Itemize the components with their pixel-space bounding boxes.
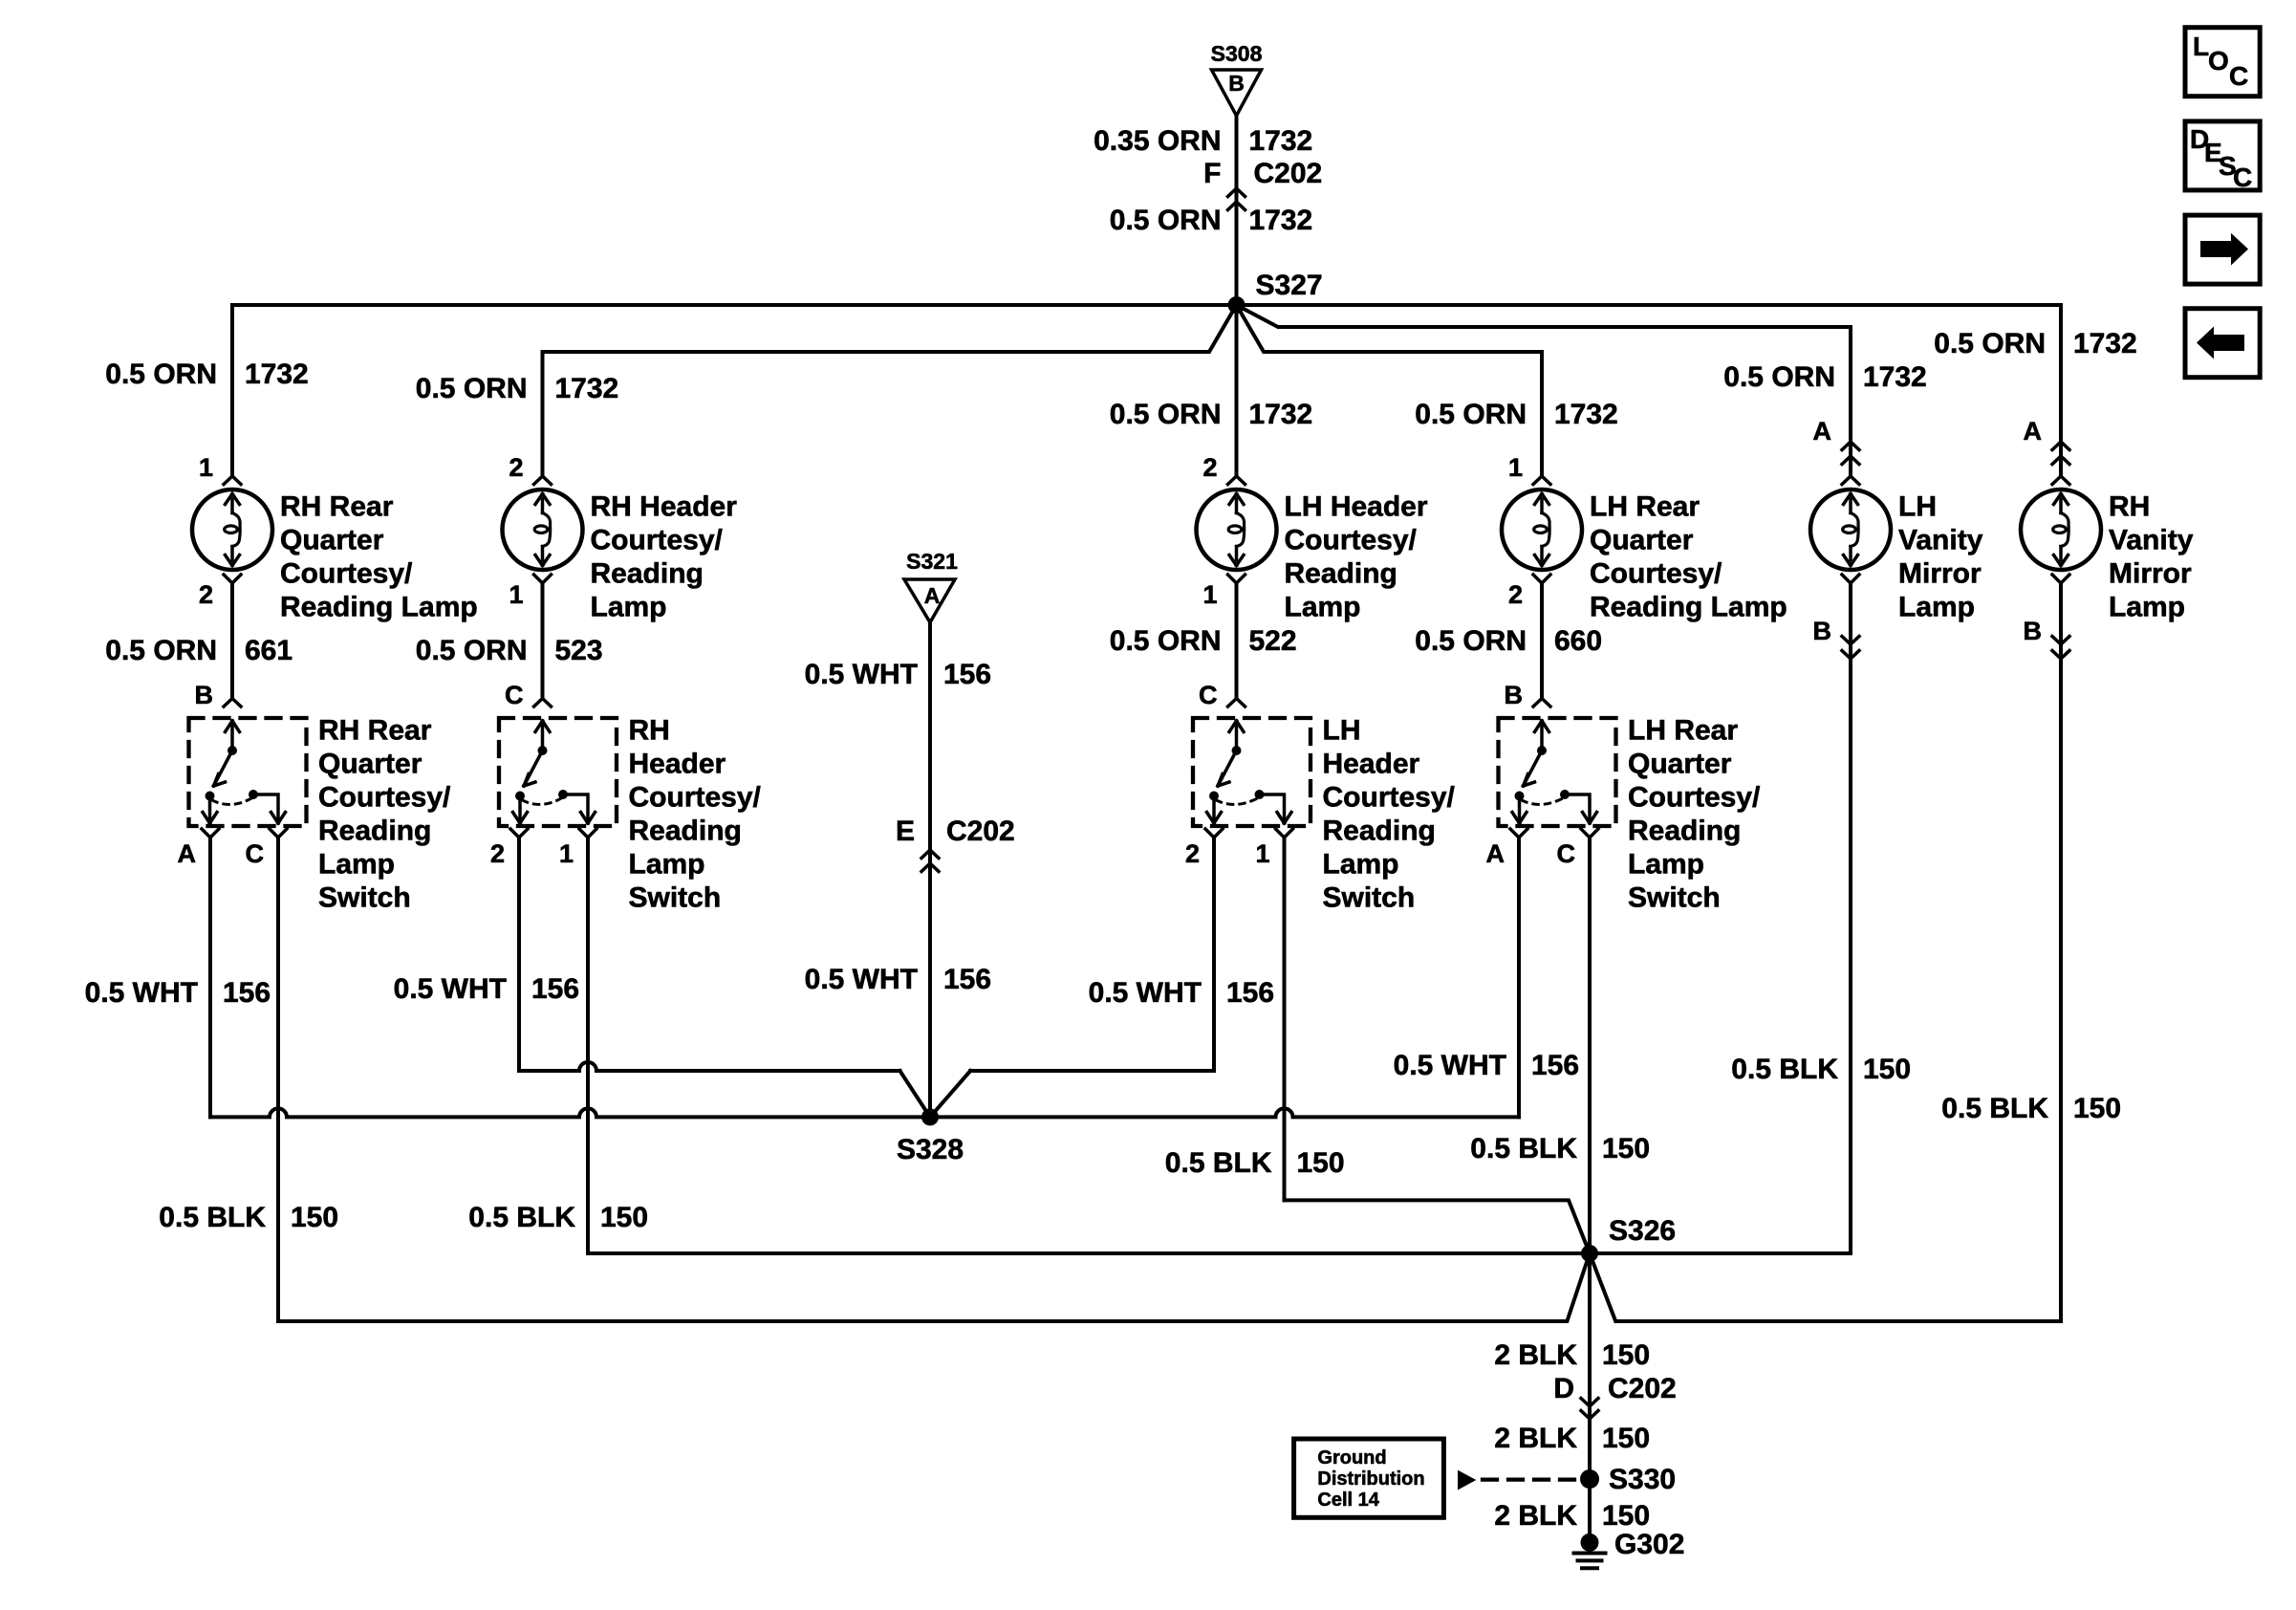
svg-text:2: 2 [1508, 580, 1523, 609]
svg-text:LH Header: LH Header [1285, 491, 1428, 523]
svg-text:156: 156 [223, 977, 271, 1009]
svg-text:Reading Lamp: Reading Lamp [1590, 592, 1787, 623]
svg-text:S326: S326 [1609, 1215, 1676, 1247]
svg-text:0.5 ORN: 0.5 ORN [1110, 399, 1222, 430]
svg-text:150: 150 [1297, 1147, 1345, 1179]
svg-text:0.5 BLK: 0.5 BLK [1941, 1093, 2048, 1124]
svg-text:Lamp: Lamp [2109, 592, 2185, 623]
svg-text:Switch: Switch [629, 882, 722, 914]
svg-text:RH Header: RH Header [591, 491, 738, 523]
svg-text:0.5 ORN: 0.5 ORN [105, 359, 217, 390]
svg-text:0.5 BLK: 0.5 BLK [159, 1202, 266, 1233]
svg-text:Reading: Reading [591, 558, 704, 590]
svg-text:0.5 ORN: 0.5 ORN [1110, 205, 1222, 236]
svg-text:C: C [505, 681, 524, 709]
svg-text:Courtesy/: Courtesy/ [1628, 782, 1761, 814]
svg-text:1: 1 [1508, 453, 1523, 482]
svg-text:150: 150 [291, 1202, 338, 1233]
svg-text:Header: Header [629, 749, 726, 780]
svg-text:E: E [896, 816, 915, 847]
svg-text:C: C [2233, 163, 2252, 192]
svg-text:Switch: Switch [1628, 882, 1721, 914]
svg-text:Courtesy/: Courtesy/ [1590, 558, 1722, 590]
svg-text:F: F [1203, 158, 1221, 189]
svg-text:150: 150 [1602, 1133, 1650, 1164]
svg-text:0.5 WHT: 0.5 WHT [805, 964, 918, 995]
svg-text:Reading: Reading [318, 816, 431, 847]
svg-text:1: 1 [1255, 839, 1269, 868]
svg-text:C: C [246, 839, 265, 868]
svg-text:Reading: Reading [1628, 816, 1741, 847]
svg-text:C202: C202 [1608, 1373, 1677, 1404]
svg-text:2: 2 [1185, 839, 1200, 868]
svg-text:D: D [1553, 1373, 1574, 1404]
svg-text:Switch: Switch [1323, 882, 1416, 914]
svg-text:Reading: Reading [629, 816, 742, 847]
svg-text:Lamp: Lamp [318, 849, 395, 881]
svg-text:1732: 1732 [1249, 399, 1313, 430]
svg-text:S308: S308 [1211, 41, 1263, 66]
svg-text:1732: 1732 [2073, 328, 2137, 359]
svg-text:1: 1 [1202, 580, 1217, 609]
svg-text:G302: G302 [1614, 1529, 1684, 1560]
svg-text:S321: S321 [906, 549, 958, 574]
svg-text:Lamp: Lamp [591, 592, 667, 623]
svg-text:0.5 ORN: 0.5 ORN [1110, 625, 1222, 657]
svg-text:2 BLK: 2 BLK [1494, 1339, 1577, 1371]
svg-text:Courtesy/: Courtesy/ [629, 782, 762, 814]
svg-text:2 BLK: 2 BLK [1494, 1500, 1577, 1532]
svg-text:O: O [2208, 46, 2229, 76]
svg-text:0.5 BLK: 0.5 BLK [1731, 1054, 1838, 1085]
svg-text:A: A [1486, 839, 1505, 868]
svg-text:C202: C202 [1254, 158, 1323, 189]
svg-text:2: 2 [199, 580, 213, 609]
svg-text:Reading Lamp: Reading Lamp [280, 592, 478, 623]
svg-text:C: C [2229, 61, 2248, 91]
svg-text:660: 660 [1554, 625, 1602, 657]
svg-text:L: L [2193, 32, 2209, 61]
svg-text:Lamp: Lamp [1323, 849, 1399, 881]
svg-text:156: 156 [1226, 977, 1274, 1009]
svg-text:Quarter: Quarter [1590, 525, 1694, 556]
svg-text:Ground: Ground [1317, 1447, 1386, 1469]
svg-text:S327: S327 [1256, 270, 1323, 301]
svg-text:B: B [1813, 617, 1832, 645]
svg-text:1732: 1732 [1863, 361, 1927, 393]
svg-text:Quarter: Quarter [280, 525, 384, 556]
svg-text:A: A [924, 583, 941, 608]
svg-text:1: 1 [509, 580, 523, 609]
svg-text:0.5 WHT: 0.5 WHT [805, 659, 918, 690]
svg-text:Courtesy/: Courtesy/ [318, 782, 451, 814]
svg-text:Reading: Reading [1323, 816, 1436, 847]
svg-text:156: 156 [943, 964, 991, 995]
svg-text:661: 661 [245, 635, 292, 666]
svg-text:1732: 1732 [1249, 125, 1313, 157]
svg-text:B: B [195, 681, 214, 709]
svg-text:Switch: Switch [318, 882, 411, 914]
svg-text:523: 523 [555, 635, 603, 666]
svg-text:1732: 1732 [1554, 399, 1618, 430]
svg-text:RH: RH [2109, 491, 2150, 523]
svg-text:RH Rear: RH Rear [318, 715, 432, 747]
svg-text:S330: S330 [1609, 1464, 1676, 1495]
svg-text:0.5 ORN: 0.5 ORN [105, 635, 217, 666]
svg-text:C202: C202 [946, 816, 1015, 847]
svg-text:0.5 ORN: 0.5 ORN [1415, 399, 1527, 430]
svg-text:A: A [2024, 417, 2043, 446]
svg-text:0.35 ORN: 0.35 ORN [1094, 125, 1221, 157]
svg-text:522: 522 [1249, 625, 1297, 657]
svg-text:Courtesy/: Courtesy/ [591, 525, 724, 556]
svg-text:0.5 ORN: 0.5 ORN [1415, 625, 1527, 657]
svg-text:B: B [1505, 681, 1524, 709]
svg-text:156: 156 [531, 973, 579, 1005]
svg-text:Quarter: Quarter [1628, 749, 1732, 780]
svg-text:Lamp: Lamp [1285, 592, 1361, 623]
svg-text:0.5 BLK: 0.5 BLK [1165, 1147, 1272, 1179]
svg-text:0.5 WHT: 0.5 WHT [85, 977, 198, 1009]
svg-text:0.5 ORN: 0.5 ORN [1934, 328, 2046, 359]
svg-text:2: 2 [490, 839, 505, 868]
svg-text:1732: 1732 [555, 373, 619, 404]
svg-text:1: 1 [199, 453, 213, 482]
svg-text:C: C [1557, 839, 1576, 868]
svg-text:0.5 ORN: 0.5 ORN [416, 635, 528, 666]
svg-text:Lamp: Lamp [1898, 592, 1975, 623]
svg-text:150: 150 [1863, 1054, 1911, 1085]
svg-text:Courtesy/: Courtesy/ [1323, 782, 1456, 814]
svg-text:2: 2 [1202, 453, 1217, 482]
svg-text:Header: Header [1323, 749, 1420, 780]
svg-text:156: 156 [943, 659, 991, 690]
svg-text:2: 2 [509, 453, 523, 482]
svg-text:0.5 ORN: 0.5 ORN [416, 373, 528, 404]
svg-text:Courtesy/: Courtesy/ [280, 558, 413, 590]
svg-text:150: 150 [600, 1202, 648, 1233]
svg-text:Vanity: Vanity [2109, 525, 2194, 556]
svg-text:RH: RH [629, 715, 670, 747]
svg-text:B: B [2024, 617, 2043, 645]
svg-text:1732: 1732 [1249, 205, 1313, 236]
svg-text:Reading: Reading [1285, 558, 1397, 590]
svg-text:A: A [1813, 417, 1832, 446]
svg-text:150: 150 [1602, 1339, 1650, 1371]
svg-text:Quarter: Quarter [318, 749, 422, 780]
svg-text:0.5 WHT: 0.5 WHT [1089, 977, 1202, 1009]
svg-text:0.5 BLK: 0.5 BLK [1470, 1133, 1577, 1164]
svg-text:Mirror: Mirror [2109, 558, 2192, 590]
svg-text:150: 150 [1602, 1423, 1650, 1454]
svg-text:0.5 BLK: 0.5 BLK [468, 1202, 575, 1233]
svg-text:1732: 1732 [245, 359, 309, 390]
svg-text:156: 156 [1531, 1050, 1579, 1081]
svg-text:C: C [1199, 681, 1218, 709]
svg-text:Cell 14: Cell 14 [1317, 1490, 1379, 1511]
svg-text:1: 1 [559, 839, 574, 868]
svg-text:Lamp: Lamp [629, 849, 705, 881]
svg-text:150: 150 [1602, 1500, 1650, 1532]
svg-text:LH Rear: LH Rear [1628, 715, 1738, 747]
svg-text:LH: LH [1898, 491, 1937, 523]
svg-text:S328: S328 [897, 1134, 964, 1165]
svg-text:Distribution: Distribution [1317, 1469, 1424, 1490]
svg-text:2 BLK: 2 BLK [1494, 1423, 1577, 1454]
svg-text:B: B [1228, 71, 1245, 96]
svg-text:LH Rear: LH Rear [1590, 491, 1700, 523]
svg-text:Courtesy/: Courtesy/ [1285, 525, 1418, 556]
svg-text:Vanity: Vanity [1898, 525, 1983, 556]
svg-text:A: A [178, 839, 197, 868]
svg-text:0.5 ORN: 0.5 ORN [1723, 361, 1835, 393]
svg-text:150: 150 [2073, 1093, 2121, 1124]
svg-text:Lamp: Lamp [1628, 849, 1704, 881]
svg-text:LH: LH [1323, 715, 1361, 747]
svg-text:Mirror: Mirror [1898, 558, 1982, 590]
svg-text:RH Rear: RH Rear [280, 491, 394, 523]
svg-text:0.5 WHT: 0.5 WHT [1394, 1050, 1506, 1081]
svg-text:0.5 WHT: 0.5 WHT [394, 973, 507, 1005]
